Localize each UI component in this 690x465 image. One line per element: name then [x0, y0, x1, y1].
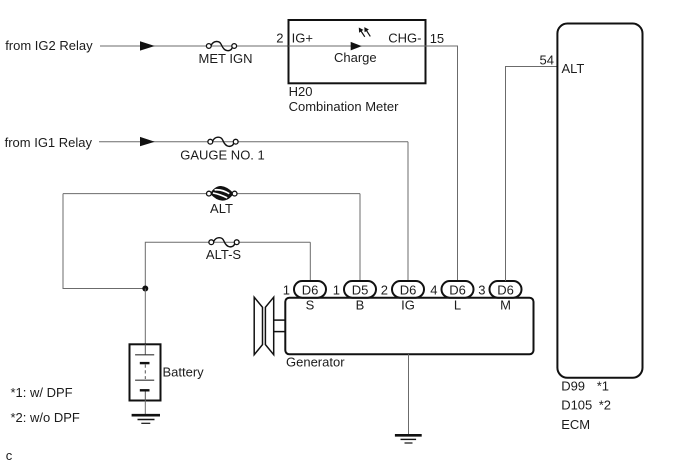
svg-text:MET IGN: MET IGN [199, 51, 253, 66]
arrow on IG1 wire [140, 137, 155, 146]
generator pulley symbol [254, 297, 274, 355]
svg-text:1: 1 [333, 283, 340, 298]
svg-text:c: c [6, 448, 13, 463]
svg-text:GAUGE NO. 1: GAUGE NO. 1 [180, 148, 265, 163]
connector IG pin 2 D6 [381, 281, 424, 312]
combination meter box H20 [289, 20, 426, 83]
svg-text:*1: *1 [597, 378, 609, 393]
arrow on IG2 wire [140, 41, 155, 50]
svg-text:D99: D99 [561, 378, 585, 393]
svg-text:2: 2 [381, 283, 388, 298]
connector S pin 1 D6 [283, 281, 326, 312]
svg-text:S: S [306, 297, 315, 312]
svg-text:ALT-S: ALT-S [206, 247, 241, 262]
wire ALT fusible link horizontal [63, 193, 360, 195]
ground below generator [395, 435, 422, 443]
svg-text:D5: D5 [352, 283, 369, 298]
svg-text:IG+: IG+ [292, 31, 313, 46]
svg-text:D6: D6 [497, 283, 514, 298]
junction node battery/ALT/ALT-S [142, 286, 148, 292]
charge indicator LED triangle [351, 42, 362, 51]
wire battery feed to ALT fusible link [63, 194, 145, 289]
svg-text:2: 2 [276, 31, 283, 46]
connector B pin 1 D5 [333, 281, 376, 312]
svg-text:from IG1 Relay: from IG1 Relay [5, 135, 93, 150]
svg-text:L: L [454, 297, 461, 312]
svg-text:D6: D6 [302, 283, 319, 298]
svg-text:ALT: ALT [210, 201, 233, 216]
wire from IG2 Relay to combination meter [100, 45, 289, 47]
svg-text:Combination Meter: Combination Meter [289, 99, 399, 114]
svg-text:IG: IG [401, 297, 415, 312]
fuse ALT-S [209, 238, 239, 247]
wire from IG1 Relay [99, 141, 408, 143]
fuse MET IGN [206, 41, 236, 50]
generator box [285, 298, 533, 355]
svg-text:B: B [356, 297, 365, 312]
wire generator to ground [408, 354, 410, 435]
svg-text:15: 15 [430, 31, 444, 46]
battery [130, 344, 161, 400]
svg-text:*2: w/o DPF: *2: w/o DPF [11, 410, 80, 425]
wire junction to battery [144, 289, 146, 345]
svg-text:D105: D105 [561, 398, 592, 413]
wire CHG- pin15 to L connector [426, 46, 458, 281]
svg-text:CHG-: CHG- [388, 31, 421, 46]
wire battery to ground [144, 401, 146, 416]
svg-text:H20: H20 [289, 84, 313, 99]
connector M pin 3 D6 [478, 281, 521, 312]
wire GAUGE NO.1 to IG connector [407, 142, 409, 281]
connector L pin 4 D6 [430, 281, 473, 312]
wire ALT-S branch [145, 242, 310, 288]
svg-text:D6: D6 [449, 283, 466, 298]
svg-text:D6: D6 [400, 283, 417, 298]
svg-text:Generator: Generator [286, 355, 345, 370]
fusible link ALT [207, 186, 238, 200]
svg-text:ECM: ECM [561, 417, 590, 432]
charge indicator arrows [359, 27, 371, 37]
wire ALT to B connector [359, 194, 361, 281]
svg-text:*1: w/ DPF: *1: w/ DPF [11, 385, 73, 400]
ground below battery [132, 415, 160, 423]
pulley to generator connection lines [274, 320, 286, 332]
svg-text:54: 54 [540, 53, 554, 68]
fuse GAUGE NO. 1 [208, 137, 238, 146]
svg-text:Battery: Battery [163, 364, 205, 379]
svg-text:*2: *2 [599, 398, 611, 413]
svg-text:4: 4 [430, 283, 437, 298]
svg-text:from IG2 Relay: from IG2 Relay [5, 38, 93, 53]
svg-text:Charge: Charge [334, 50, 377, 65]
ECM box [557, 24, 642, 378]
svg-text:ALT: ALT [562, 61, 585, 76]
svg-text:M: M [500, 297, 511, 312]
svg-text:3: 3 [478, 283, 485, 298]
wire inside combination meter [289, 45, 426, 47]
wire ECM pin 54 to M connector [506, 67, 558, 282]
svg-text:1: 1 [283, 283, 290, 298]
wire ALT-S to S connector [309, 242, 311, 281]
